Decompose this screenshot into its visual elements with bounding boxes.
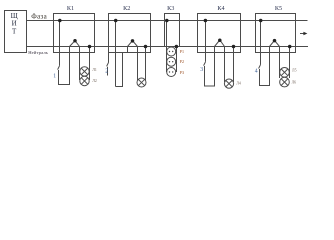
svg-text:2: 2 xyxy=(105,69,108,75)
wire phase drop K5 xyxy=(260,21,262,65)
node phase tap K1 xyxy=(58,19,62,23)
wire lamp feed K4 xyxy=(224,47,226,83)
wire lamp feed K5 xyxy=(279,47,281,79)
lamp L2 xyxy=(80,76,89,85)
junction box K5 xyxy=(256,14,296,53)
svg-text:Л1: Л1 xyxy=(92,68,97,72)
svg-text:Р2: Р2 xyxy=(180,59,184,64)
svg-text:Р1: Р1 xyxy=(180,49,184,54)
svg-text:Фаза: Фаза xyxy=(31,13,47,21)
svg-text:Т: Т xyxy=(12,27,17,35)
svg-text:Л5: Л5 xyxy=(292,69,297,73)
node K4 junction lambda xyxy=(215,40,225,47)
svg-text:4: 4 xyxy=(255,68,258,74)
node neutral tap K3 xyxy=(175,45,179,49)
wire phase drop K1 xyxy=(59,21,61,66)
switch 1 blade xyxy=(58,66,60,70)
panel box ЩИТ xyxy=(5,11,27,53)
svg-text:К4: К4 xyxy=(217,5,224,12)
wire phase drop K4 xyxy=(205,21,207,62)
wire loop K2 xyxy=(116,53,123,87)
wire neutral bus xyxy=(27,46,309,48)
wire socket return K3 xyxy=(176,47,178,73)
wire socket feed K3 xyxy=(166,21,168,73)
wire lamp feed K2 xyxy=(137,47,139,83)
socket P1 xyxy=(167,47,176,56)
junction box K1 xyxy=(54,14,95,53)
switch 3 blade xyxy=(204,62,206,66)
arrow head xyxy=(303,32,307,35)
node phase tap K3 xyxy=(165,19,169,23)
wire lamp return K5 xyxy=(289,47,291,79)
svg-text:Л2: Л2 xyxy=(92,79,97,83)
node lambda apex K4 xyxy=(218,38,222,42)
socket P3 xyxy=(167,68,176,77)
lamp L1 xyxy=(80,67,89,76)
node neutral tap K2 xyxy=(144,45,148,49)
lamp L5 xyxy=(280,68,290,78)
node lambda apex K1 xyxy=(73,39,77,43)
wire lamp return K1 xyxy=(89,47,91,81)
lamp L4 xyxy=(224,79,233,88)
junction box K3 xyxy=(165,14,180,47)
svg-text:Л6: Л6 xyxy=(292,80,297,84)
svg-text:К1: К1 xyxy=(67,5,74,12)
wire lamp feed K1 xyxy=(79,47,81,81)
node lambda apex K5 xyxy=(273,39,277,43)
wire phase drop K2 xyxy=(115,21,117,87)
node phase tap K2 xyxy=(114,19,118,23)
node phase tap K5 xyxy=(259,19,263,23)
svg-text:3: 3 xyxy=(200,67,203,73)
wire lamp return K4 xyxy=(233,47,235,83)
node neutral tap K1 xyxy=(88,45,92,49)
wire switch 4 lower loop xyxy=(260,47,270,86)
node phase tap K4 xyxy=(204,19,208,23)
node K5 junction lambda xyxy=(270,40,280,46)
wire switch 2 lower xyxy=(107,67,109,76)
arrow continuation xyxy=(300,33,305,35)
junction box K2 xyxy=(109,14,151,53)
node neutral tap K5 xyxy=(288,45,292,49)
junction box K4 xyxy=(198,14,241,53)
svg-text:К5: К5 xyxy=(275,5,282,12)
svg-text:К2: К2 xyxy=(123,5,130,12)
svg-text:Нейтраль: Нейтраль xyxy=(28,50,48,55)
node K1 junction lambda xyxy=(70,41,80,47)
node K2 junction lambda xyxy=(128,41,138,47)
lamp L6 xyxy=(280,77,290,87)
wire lamp return K2 xyxy=(145,47,147,83)
svg-text:И: И xyxy=(12,20,17,28)
junction dots xyxy=(58,19,291,49)
switch 2 drop xyxy=(108,53,110,63)
svg-text:1: 1 xyxy=(53,74,56,80)
node neutral tap K4 xyxy=(232,45,236,49)
switch 4 blade xyxy=(259,65,261,69)
lamp L3 xyxy=(137,78,146,87)
node lambda apex K2 xyxy=(131,39,135,43)
wire switch 3 lower loop xyxy=(205,47,215,87)
wire phase bus xyxy=(27,20,308,22)
wire lambda stub K2 xyxy=(127,47,129,53)
svg-text:К3: К3 xyxy=(167,5,174,12)
socket P2 xyxy=(167,57,176,66)
svg-text:Р3: Р3 xyxy=(180,70,184,75)
wire switch 1 lower loop xyxy=(59,47,70,85)
switch 2 blade xyxy=(107,63,109,67)
svg-text:Л4: Л4 xyxy=(236,82,241,86)
